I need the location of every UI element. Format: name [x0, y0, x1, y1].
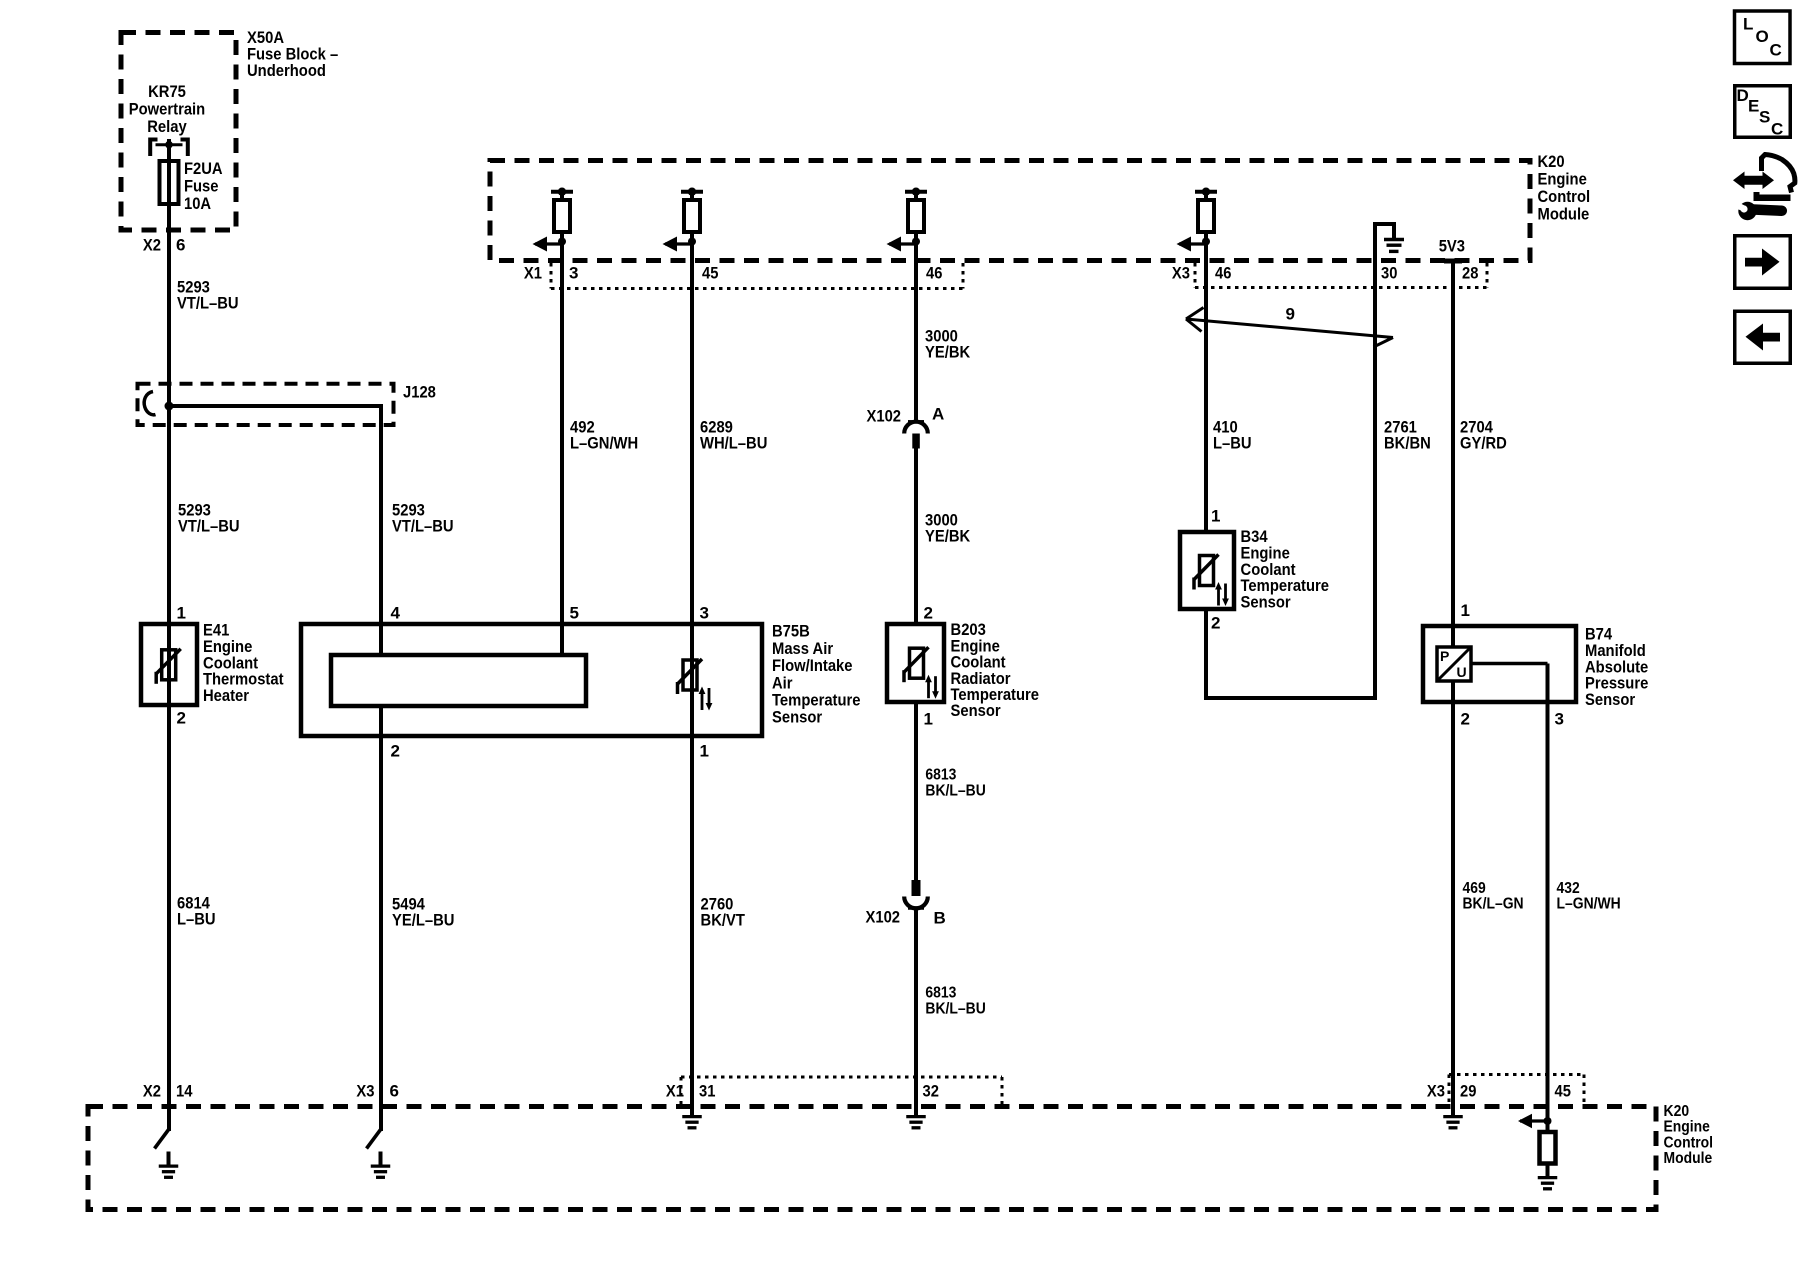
component box B74 — [1423, 626, 1576, 702]
svg-text:E: E — [1748, 97, 1759, 116]
wire 469 column H lower — [1451, 681, 1455, 1110]
icon wrench with arrows — [1733, 172, 1774, 190]
svg-text:BK/L–BU: BK/L–BU — [925, 1000, 985, 1017]
IAT thermistor symbol B75B — [683, 660, 697, 690]
svg-text:L: L — [1743, 15, 1753, 34]
svg-text:Heater: Heater — [203, 686, 249, 705]
svg-text:1: 1 — [1211, 507, 1220, 526]
ECM internal resistor and ground at pin 45 — [1546, 1106, 1550, 1132]
wire 5293/6814 column A — [167, 406, 171, 1131]
svg-text:2: 2 — [1461, 710, 1470, 729]
K20 Engine Control Module top dashed box — [490, 161, 1530, 261]
fuse block X50A - Underhood dashed box — [121, 33, 236, 231]
icon next-page arrow box — [1735, 236, 1791, 289]
svg-text:5V3: 5V3 — [1439, 237, 1465, 256]
svg-text:Temperature: Temperature — [772, 691, 861, 710]
connector band X3 bottom right — [1448, 1075, 1451, 1107]
svg-text:X2: X2 — [143, 1082, 161, 1101]
J128 splice hook symbol — [144, 392, 155, 415]
svg-text:Relay: Relay — [147, 117, 187, 136]
svg-text:BK/L–BU: BK/L–BU — [925, 782, 985, 799]
svg-text:Air: Air — [772, 673, 793, 692]
svg-text:6: 6 — [176, 236, 185, 255]
svg-text:3: 3 — [569, 264, 578, 283]
inline connector X102 A — [908, 420, 924, 424]
connector band X3 top — [1194, 263, 1197, 288]
svg-text:X3: X3 — [356, 1082, 374, 1101]
svg-text:2: 2 — [1211, 614, 1220, 633]
wire column F to loop — [1204, 609, 1208, 700]
wire 3000 column E mid — [914, 447, 918, 624]
heater element symbol E41 — [162, 650, 176, 680]
svg-text:YE/BK: YE/BK — [925, 527, 971, 546]
connector band X1 bottom — [680, 1077, 683, 1106]
svg-text:K20: K20 — [1538, 152, 1565, 171]
wire J128 horizontal to right branch — [169, 404, 381, 408]
svg-text:VT/L–BU: VT/L–BU — [177, 294, 239, 313]
svg-text:45: 45 — [1555, 1082, 1571, 1101]
svg-text:X102: X102 — [867, 407, 902, 426]
svg-text:14: 14 — [176, 1082, 193, 1101]
wire 6289/2760 column D — [690, 258, 694, 1110]
component box B34 — [1180, 532, 1234, 609]
svg-text:BK/L–GN: BK/L–GN — [1463, 895, 1524, 912]
svg-text:Engine: Engine — [1664, 1119, 1710, 1136]
relay KR75 contact symbol — [150, 140, 157, 157]
svg-text:L–GN/WH: L–GN/WH — [570, 434, 638, 453]
svg-text:S: S — [1759, 108, 1770, 127]
svg-text:31: 31 — [699, 1082, 715, 1101]
svg-text:VT/L–BU: VT/L–BU — [178, 517, 240, 536]
svg-text:46: 46 — [1215, 264, 1231, 283]
svg-text:Underhood: Underhood — [247, 61, 326, 80]
thermistor symbol B203 — [910, 648, 924, 678]
svg-text:469: 469 — [1463, 880, 1486, 897]
svg-text:Control: Control — [1538, 187, 1591, 206]
svg-text:4: 4 — [391, 604, 401, 623]
svg-text:WH/L–BU: WH/L–BU — [700, 434, 767, 453]
junction at J128 — [165, 402, 174, 411]
svg-text:BK/VT: BK/VT — [701, 911, 746, 930]
svg-text:X1: X1 — [524, 264, 542, 283]
svg-text:Fuse: Fuse — [184, 177, 219, 196]
ECM internal ground at pin 30 — [1373, 224, 1377, 260]
svg-text:GY/RD: GY/RD — [1460, 434, 1507, 453]
wire loop horizontal B34 pin2 to ECM 30 — [1206, 696, 1375, 700]
svg-text:Sensor: Sensor — [1241, 592, 1291, 611]
pressure transducer P/U symbol B74 — [1437, 647, 1471, 681]
svg-text:O: O — [1756, 27, 1769, 46]
component box B203 — [887, 624, 944, 702]
wire 6813 column E lower2 — [914, 909, 918, 1111]
ECM driver/sense symbol at pin X1-3 — [551, 190, 573, 194]
wire through fuse — [167, 160, 171, 406]
svg-text:10A: 10A — [184, 194, 211, 213]
icon DESC box — [1735, 86, 1791, 138]
svg-text:1: 1 — [1461, 601, 1470, 620]
svg-text:Engine: Engine — [1538, 170, 1587, 189]
ground at ECM X3-29 — [1451, 1106, 1455, 1116]
svg-text:L–BU: L–BU — [1213, 434, 1252, 453]
svg-text:K20: K20 — [1664, 1103, 1690, 1120]
svg-text:U: U — [1457, 664, 1467, 680]
svg-text:Sensor: Sensor — [1585, 690, 1635, 709]
wire 5293 column B upper — [379, 423, 383, 655]
connector band X1 top — [550, 263, 553, 289]
svg-text:6813: 6813 — [925, 766, 956, 783]
svg-text:6813: 6813 — [925, 984, 956, 1001]
svg-text:Module: Module — [1538, 205, 1590, 224]
wire 5494 column B lower — [379, 706, 383, 1131]
svg-text:D: D — [1737, 86, 1749, 105]
svg-text:L–GN/WH: L–GN/WH — [1557, 895, 1621, 912]
wire 492 column C — [560, 258, 564, 655]
thermistor symbol B34 — [1200, 556, 1214, 586]
twisted-lead arrow 9 — [1186, 319, 1393, 338]
fuse F2UA 10A — [160, 161, 179, 204]
ECM driver/sense symbol at pin 46 — [905, 190, 927, 194]
ECM driver/sense symbol at pin 45 — [681, 190, 703, 194]
svg-text:Module: Module — [1664, 1150, 1713, 1167]
component box E41 — [141, 624, 197, 705]
svg-text:X1: X1 — [666, 1082, 684, 1101]
svg-text:Sensor: Sensor — [772, 708, 822, 727]
svg-text:KR75: KR75 — [148, 82, 186, 101]
svg-text:6: 6 — [390, 1082, 399, 1101]
svg-text:45: 45 — [702, 264, 718, 283]
svg-text:C: C — [1770, 41, 1782, 60]
wire 410 column F — [1204, 258, 1208, 532]
svg-text:9: 9 — [1286, 305, 1295, 324]
svg-text:B: B — [934, 909, 946, 928]
svg-text:32: 32 — [923, 1082, 939, 1101]
wire 432 column I — [1546, 664, 1550, 1111]
K20 Engine Control Module bottom dashed box — [88, 1107, 1656, 1210]
wire 3000 column E upper — [914, 258, 918, 422]
MAF element rectangle B75B — [331, 655, 586, 706]
svg-text:1: 1 — [924, 710, 933, 729]
svg-text:Sensor: Sensor — [951, 701, 1001, 720]
wire 2761 column G — [1373, 258, 1377, 700]
svg-text:C: C — [1771, 120, 1783, 139]
wire 6813 column E lower1 — [914, 702, 918, 880]
wire B74 internal to pin 3 — [1471, 662, 1548, 666]
svg-text:X2: X2 — [143, 236, 161, 255]
svg-text:L–BU: L–BU — [177, 910, 216, 929]
svg-text:1: 1 — [177, 604, 186, 623]
ground at ECM pin 32 — [914, 1106, 918, 1116]
svg-text:B75B: B75B — [772, 622, 810, 641]
svg-text:BK/BN: BK/BN — [1384, 434, 1431, 453]
svg-text:5: 5 — [570, 604, 579, 623]
svg-text:2: 2 — [177, 709, 186, 728]
svg-text:A: A — [932, 405, 944, 424]
wire 2704 column H upper — [1451, 261, 1455, 647]
svg-text:Powertrain: Powertrain — [129, 100, 205, 119]
svg-text:28: 28 — [1462, 264, 1478, 283]
svg-text:X102: X102 — [866, 908, 901, 927]
svg-text:2: 2 — [391, 742, 400, 761]
svg-text:YE/L–BU: YE/L–BU — [392, 911, 455, 930]
icon previous-page arrow box — [1735, 311, 1791, 363]
svg-text:Mass Air: Mass Air — [772, 639, 833, 658]
ground at ECM X2-14 — [155, 1129, 170, 1149]
ground at ECM X1-31 — [690, 1106, 694, 1116]
splice pack J128 dashed box — [138, 384, 394, 425]
svg-text:30: 30 — [1381, 264, 1397, 283]
svg-text:YE/BK: YE/BK — [925, 343, 971, 362]
svg-text:29: 29 — [1460, 1082, 1476, 1101]
svg-text:Flow/Intake: Flow/Intake — [772, 656, 853, 675]
svg-text:3: 3 — [1555, 710, 1564, 729]
svg-text:J128: J128 — [403, 383, 436, 402]
svg-text:VT/L–BU: VT/L–BU — [392, 517, 454, 536]
ground at ECM X3-6 — [367, 1129, 382, 1149]
svg-text:X3: X3 — [1172, 264, 1190, 283]
component box B75B — [301, 624, 762, 736]
svg-text:F2UA: F2UA — [184, 159, 223, 178]
svg-text:2: 2 — [924, 604, 933, 623]
svg-text:1: 1 — [700, 742, 709, 761]
wire right branch drop inside J128 — [379, 404, 383, 425]
ECM driver/sense symbol at pin X3-46 — [1195, 190, 1217, 194]
svg-text:3: 3 — [700, 604, 709, 623]
svg-text:432: 432 — [1557, 880, 1580, 897]
inline connector X102 B — [912, 880, 921, 896]
icon LOC box — [1735, 11, 1791, 64]
svg-text:Control: Control — [1664, 1134, 1714, 1151]
svg-text:P: P — [1440, 648, 1449, 664]
svg-text:X3: X3 — [1427, 1082, 1445, 1101]
svg-text:46: 46 — [926, 264, 942, 283]
5V3 supply T-bar at pin 28 — [1444, 259, 1462, 264]
